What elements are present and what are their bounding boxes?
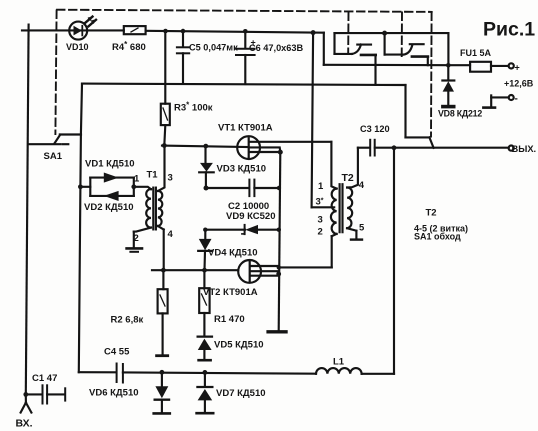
svg-text:C3 120: C3 120	[360, 124, 390, 134]
svg-text:4: 4	[168, 229, 174, 240]
svg-text:T2: T2	[342, 172, 354, 184]
svg-text:2: 2	[318, 227, 323, 238]
svg-text:L1: L1	[333, 357, 345, 368]
svg-text:C5 0,047мк: C5 0,047мк	[189, 43, 238, 53]
svg-text:SA1: SA1	[44, 151, 63, 162]
svg-text:5: 5	[359, 223, 365, 234]
svg-text:VD4 КД510: VD4 КД510	[208, 248, 258, 259]
svg-text:VT1 КТ901А: VT1 КТ901А	[218, 123, 273, 134]
svg-text:Рис.1: Рис.1	[483, 19, 535, 41]
svg-text:4: 4	[359, 180, 365, 191]
svg-text:VT2 КТ901А: VT2 КТ901А	[203, 287, 258, 298]
svg-text:3: 3	[318, 215, 323, 226]
svg-text:R3* 100к: R3* 100к	[174, 101, 213, 114]
svg-text:+: +	[515, 63, 520, 73]
svg-text:VD6 КД510: VD6 КД510	[89, 388, 139, 399]
svg-text:SA1 обход: SA1 обход	[414, 232, 461, 242]
svg-text:C1 47: C1 47	[32, 373, 57, 384]
svg-text:C4 55: C4 55	[104, 347, 130, 358]
svg-text:VD7 КД510: VD7 КД510	[216, 388, 266, 399]
svg-text:-: -	[515, 94, 518, 105]
svg-text:2: 2	[134, 233, 139, 244]
svg-text:VD8 КД212: VD8 КД212	[438, 109, 482, 119]
svg-text:R2 6,8к: R2 6,8к	[111, 315, 144, 326]
svg-text:VD5 КД510: VD5 КД510	[214, 340, 264, 351]
svg-text:VD9 КС520: VD9 КС520	[226, 211, 276, 222]
svg-text:T1: T1	[147, 170, 159, 181]
svg-text:VD10: VD10	[66, 42, 89, 52]
svg-text:VD2 КД510: VD2 КД510	[84, 202, 134, 213]
svg-text:VD1 КД510: VD1 КД510	[85, 159, 135, 170]
svg-text:1: 1	[134, 174, 140, 185]
svg-text:ВЫХ.: ВЫХ.	[512, 144, 537, 154]
svg-text:R1 470: R1 470	[214, 314, 245, 325]
svg-text:FU1 5A: FU1 5A	[460, 48, 492, 58]
svg-text:+12,6В: +12,6В	[504, 79, 534, 89]
svg-text:C6 47,0x63В: C6 47,0x63В	[249, 43, 304, 53]
svg-text:3: 3	[168, 172, 173, 183]
svg-text:R4* 680: R4* 680	[112, 40, 146, 53]
svg-text:ВХ.: ВХ.	[16, 418, 33, 430]
svg-text:+: +	[251, 38, 256, 48]
svg-text:1: 1	[318, 181, 324, 192]
svg-text:T2: T2	[426, 208, 437, 219]
svg-text:VD3 КД510: VD3 КД510	[217, 164, 267, 175]
